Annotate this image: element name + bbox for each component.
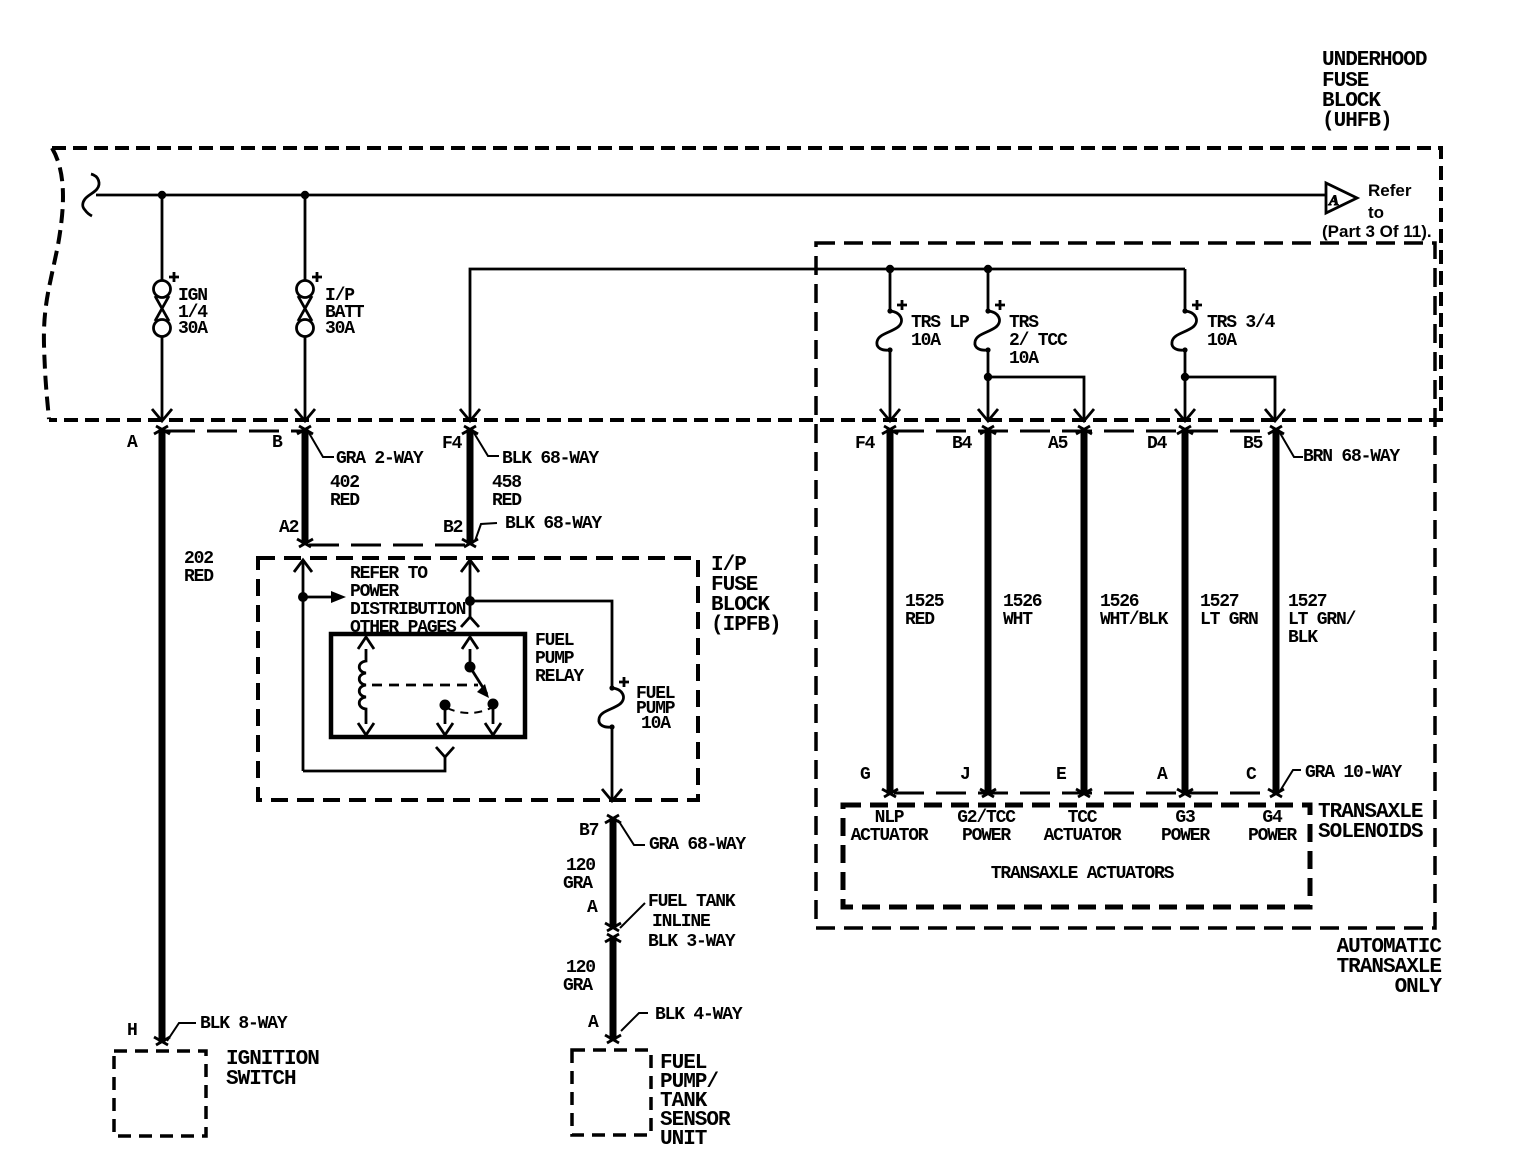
- fuse TRS 2/ TCC 10A: [975, 300, 1005, 353]
- svg-text:G: G: [860, 765, 870, 785]
- svg-text:A: A: [127, 433, 138, 453]
- leader FUEL TANK INLINE: [620, 903, 645, 928]
- svg-text:B7: B7: [579, 821, 599, 841]
- svg-text:OTHER PAGES: OTHER PAGES: [350, 618, 457, 638]
- underhood fuse block UHFB dashed boundary: [44, 148, 1441, 420]
- svg-text:10A: 10A: [641, 714, 671, 734]
- leader GRA 10-WAY: [1280, 770, 1301, 791]
- wire to fuel pump fuse: [470, 601, 612, 686]
- svg-text:FUEL: FUEL: [535, 631, 574, 651]
- fuse FUEL PUMP 10A: [599, 677, 629, 730]
- wire: [1184, 350, 1187, 419]
- arrow out of UHFB: [152, 409, 172, 421]
- svg-text:BLK 8-WAY: BLK 8-WAY: [200, 1014, 288, 1034]
- svg-text:1526: 1526: [1100, 592, 1139, 612]
- svg-text:F4: F4: [442, 434, 463, 454]
- svg-text:B5: B5: [1243, 434, 1263, 454]
- leader GRA 2-WAY: [309, 433, 334, 457]
- relay box: [331, 634, 525, 737]
- svg-text:UNIT: UNIT: [660, 1128, 707, 1151]
- svg-text:1526: 1526: [1003, 592, 1042, 612]
- connector line bottom row G-C: [894, 792, 1272, 795]
- wire: [1184, 269, 1187, 310]
- wire bottom run to relay contact: [303, 757, 445, 771]
- wire: [987, 350, 990, 419]
- svg-text:TRS 3/4: TRS 3/4: [1207, 313, 1276, 333]
- svg-text:A: A: [588, 1013, 599, 1033]
- svg-text:GRA 68-WAY: GRA 68-WAY: [649, 835, 746, 855]
- svg-text:SWITCH: SWITCH: [226, 1068, 296, 1091]
- wire from A2 into IPFB: [302, 560, 305, 771]
- fuel pump / tank sensor unit dashed box: [572, 1050, 651, 1135]
- svg-text:B2: B2: [443, 518, 463, 538]
- svg-text:SOLENOIDS: SOLENOIDS: [1318, 821, 1423, 844]
- svg-text:2/ TCC: 2/ TCC: [1009, 331, 1068, 351]
- node: junction to B5 branch: [1181, 373, 1189, 381]
- svg-text:F4: F4: [855, 434, 876, 454]
- wire: [304, 336, 307, 419]
- relay contacts: [440, 700, 451, 711]
- relay coil pin arrow top: [358, 637, 374, 649]
- svg-text:30A: 30A: [178, 319, 208, 339]
- pin bar B5 / wire 1527 LT GRN/BLK: [1273, 428, 1280, 795]
- svg-text:RED: RED: [905, 610, 935, 630]
- svg-text:BRN 68-WAY: BRN 68-WAY: [1303, 447, 1400, 467]
- relay coil pin arrow bottom: [358, 723, 374, 735]
- svg-text:GRA: GRA: [563, 976, 593, 996]
- svg-text:D4: D4: [1147, 434, 1168, 454]
- transaxle actuators dashed box: [843, 805, 1310, 907]
- relay switch pin arrow top: [462, 637, 478, 649]
- svg-text:UNDERHOOD: UNDERHOOD: [1322, 49, 1427, 72]
- relay linkage dashed: [372, 684, 478, 687]
- svg-text:H: H: [127, 1021, 137, 1041]
- node: junction TRS LP: [886, 265, 894, 273]
- svg-text:RELAY: RELAY: [535, 667, 584, 687]
- svg-text:LT GRN/: LT GRN/: [1288, 610, 1356, 630]
- arrow A: refer to (Part 3 Of 11): [1326, 183, 1357, 213]
- arrow out of IPFB: [602, 789, 622, 801]
- svg-text:ONLY: ONLY: [1395, 976, 1443, 999]
- svg-text:TCC: TCC: [1068, 808, 1098, 828]
- relay coil: [359, 649, 366, 724]
- wire: main battery bus: [96, 194, 1326, 197]
- svg-text:A: A: [1328, 193, 1339, 209]
- svg-text:(Part 3 Of 11).: (Part 3 Of 11).: [1322, 222, 1432, 241]
- node: junction to fuel pump fuse: [465, 596, 475, 606]
- fuse F I/P BATT 30A: [297, 272, 323, 337]
- leader BRN 68-WAY: [1280, 433, 1303, 457]
- leader BLK 68-WAY (B2): [475, 523, 497, 541]
- svg-text:C: C: [1246, 765, 1257, 785]
- pin bar A / wire 202 RED: [159, 428, 166, 1043]
- svg-text:POWER: POWER: [1161, 826, 1210, 846]
- connector line A2-B2: [309, 544, 466, 547]
- fuse TRS LP 10A: [877, 300, 907, 353]
- svg-text:RED: RED: [184, 567, 214, 587]
- svg-text:Refer: Refer: [1368, 181, 1412, 200]
- arrow into IPFB: [461, 560, 479, 572]
- pin bar D4 / wire 1527 LT GRN: [1182, 428, 1189, 795]
- svg-text:G4: G4: [1262, 808, 1283, 828]
- svg-text:GRA 10-WAY: GRA 10-WAY: [1305, 763, 1402, 783]
- leader BLK 8-WAY: [167, 1023, 196, 1041]
- wire: [304, 195, 307, 281]
- svg-text:G3: G3: [1175, 808, 1195, 828]
- svg-text:10A: 10A: [1009, 349, 1039, 369]
- pin bar F4 / wire 1525 RED: [887, 428, 894, 795]
- svg-text:POWER: POWER: [350, 582, 399, 602]
- leader BLK 68-WAY (F4): [474, 433, 499, 456]
- wire: [161, 336, 164, 419]
- wire break squiggle at left: [83, 174, 99, 216]
- svg-text:INLINE: INLINE: [652, 912, 711, 932]
- wire: [161, 195, 164, 281]
- wire branch to B5: [1185, 377, 1275, 419]
- svg-text:A5: A5: [1048, 434, 1068, 454]
- wire branch to A5: [988, 377, 1084, 419]
- arrow into IPFB: [294, 560, 312, 572]
- wire: [987, 269, 990, 310]
- svg-text:WHT/BLK: WHT/BLK: [1100, 610, 1169, 630]
- connector line A-B (GRA 2-WAY): [165, 430, 302, 433]
- svg-text:BLK 68-WAY: BLK 68-WAY: [505, 514, 602, 534]
- svg-text:FUEL TANK: FUEL TANK: [648, 892, 736, 912]
- svg-text:LT GRN: LT GRN: [1200, 610, 1258, 630]
- pin bar B-A2 / wire 402 RED: [302, 428, 309, 545]
- svg-text:1525: 1525: [905, 592, 944, 612]
- arrow out of UHFB at D4: [1175, 409, 1195, 421]
- node: junction at I/P BATT fuse: [301, 191, 309, 199]
- svg-text:BLK 68-WAY: BLK 68-WAY: [502, 449, 599, 469]
- svg-text:A: A: [587, 898, 598, 918]
- svg-text:ACTUATOR: ACTUATOR: [851, 826, 929, 846]
- svg-text:NLP: NLP: [875, 808, 905, 828]
- svg-text:TRANSAXLE ACTUATORS: TRANSAXLE ACTUATORS: [991, 864, 1175, 884]
- svg-text:(IPFB): (IPFB): [711, 614, 781, 637]
- svg-text:to: to: [1368, 203, 1384, 222]
- arrow to REFER TO text: [303, 596, 332, 599]
- svg-text:30A: 30A: [325, 319, 355, 339]
- svg-text:J: J: [960, 765, 970, 785]
- leader BLK 4-WAY: [621, 1013, 648, 1031]
- svg-text:TRS: TRS: [1009, 313, 1039, 333]
- arrow out of UHFB at B4: [978, 409, 998, 421]
- svg-text:(UHFB): (UHFB): [1322, 110, 1392, 133]
- svg-text:WHT: WHT: [1003, 610, 1033, 630]
- pin bar / wire 120 GRA lower: [610, 936, 617, 1041]
- connector line top row F4-B5: [894, 430, 1272, 433]
- arrow out of UHFB at F4: [460, 409, 480, 421]
- svg-text:402: 402: [330, 473, 359, 493]
- svg-text:PUMP: PUMP: [535, 649, 575, 669]
- arrow out of UHFB: [295, 409, 315, 421]
- wire to IPFB bottom: [611, 727, 614, 799]
- svg-text:GRA: GRA: [563, 874, 593, 894]
- svg-text:GRA 2-WAY: GRA 2-WAY: [336, 449, 424, 469]
- svg-text:A2: A2: [279, 518, 299, 538]
- pin bar B7 / wire 120 GRA: [610, 817, 617, 929]
- svg-text:POWER: POWER: [962, 826, 1011, 846]
- node: junction to A5 branch: [984, 373, 992, 381]
- relay contact pins to bottom: [444, 708, 447, 724]
- node: junction at IGN fuse: [158, 191, 166, 199]
- Y connector to relay pin: [436, 747, 454, 757]
- node: junction refer-to arrow: [298, 592, 308, 602]
- relay switch blade: [470, 667, 487, 694]
- svg-text:RED: RED: [330, 491, 360, 511]
- svg-text:458: 458: [492, 473, 521, 493]
- wire: feed to TRS fuses and F4: [470, 269, 1185, 419]
- svg-text:TRS LP: TRS LP: [911, 313, 970, 333]
- svg-text:10A: 10A: [911, 331, 941, 351]
- fuse F IGN 1/4 30A: [154, 272, 180, 337]
- svg-text:B: B: [272, 433, 283, 453]
- svg-text:A: A: [1157, 765, 1168, 785]
- automatic transaxle only dashed boundary: [816, 243, 1435, 928]
- node: junction TRS 2/TCC: [984, 265, 992, 273]
- svg-text:E: E: [1056, 765, 1067, 785]
- arrow out of UHFB at A5: [1074, 409, 1094, 421]
- svg-text:BLK: BLK: [1288, 628, 1318, 648]
- svg-text:10A: 10A: [1207, 331, 1237, 351]
- pin bar A5 / wire 1526 WHT/BLK: [1081, 428, 1088, 795]
- svg-text:BLK 4-WAY: BLK 4-WAY: [655, 1005, 743, 1025]
- leader GRA 68-WAY: [618, 820, 645, 845]
- relay switch common: [469, 649, 472, 667]
- svg-text:202: 202: [184, 549, 213, 569]
- I/P fuse block IPFB dashed boundary: [258, 558, 698, 800]
- pin bar F4-B2 / wire 458 RED: [467, 428, 474, 545]
- wire: [889, 350, 892, 419]
- wire from B2 into IPFB: [469, 560, 472, 617]
- svg-text:120: 120: [566, 856, 595, 876]
- wire: [889, 269, 892, 310]
- pin bar B4 / wire 1526 WHT: [985, 428, 992, 795]
- Y connector above relay: [461, 617, 479, 627]
- svg-text:DISTRIBUTION: DISTRIBUTION: [350, 600, 466, 620]
- svg-text:1527: 1527: [1288, 592, 1327, 612]
- arrow out of UHFB at B5: [1265, 409, 1285, 421]
- svg-text:POWER: POWER: [1248, 826, 1297, 846]
- svg-text:1527: 1527: [1200, 592, 1239, 612]
- fuse TRS 3/4 10A: [1172, 300, 1202, 353]
- svg-text:ACTUATOR: ACTUATOR: [1044, 826, 1122, 846]
- svg-text:B4: B4: [952, 434, 973, 454]
- ignition switch dashed box: [114, 1051, 206, 1136]
- svg-text:BLK 3-WAY: BLK 3-WAY: [648, 932, 736, 952]
- svg-text:G2/TCC: G2/TCC: [957, 808, 1016, 828]
- svg-text:120: 120: [566, 958, 595, 978]
- svg-text:RED: RED: [492, 491, 522, 511]
- arrow out of UHFB: [880, 409, 900, 421]
- svg-text:REFER TO: REFER TO: [350, 564, 428, 584]
